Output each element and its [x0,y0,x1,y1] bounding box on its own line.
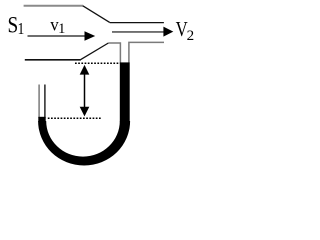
height difference arrow top head [80,65,90,75]
wire: narrow pipe bottom wall left segment with corner down into tap [108,43,120,63]
wire: converging bottom slope [81,43,109,60]
dotted level line upper (narrow tube mercury level) [75,62,120,64]
wire: narrow pipe bottom wall right segment with corner down into tap [129,42,164,62]
mercury U-bend [38,121,130,166]
manometer left tube left wall [38,85,40,119]
height difference arrow bottom head [80,107,90,117]
arrow v1 head [85,31,96,40]
svg-text:1: 1 [58,21,65,37]
svg-text:1: 1 [17,20,24,39]
arrow V2 head [163,27,173,37]
wire: converging top slope [83,6,110,23]
dotted level line lower (left tube mercury level) [48,117,101,119]
svg-text:2: 2 [187,28,195,44]
mercury column right tube [120,62,130,121]
arrow V2 shaft [112,31,164,33]
manometer left tube right wall [44,85,46,119]
wire: narrow pipe top wall [110,22,164,24]
height difference double arrow shaft [84,73,86,108]
wire: wide pipe bottom wall [25,59,81,61]
wire: wide pipe top wall [24,5,83,7]
mercury column left tube [38,117,45,122]
arrow v1 shaft [28,35,86,37]
svg-text:S: S [8,12,19,38]
